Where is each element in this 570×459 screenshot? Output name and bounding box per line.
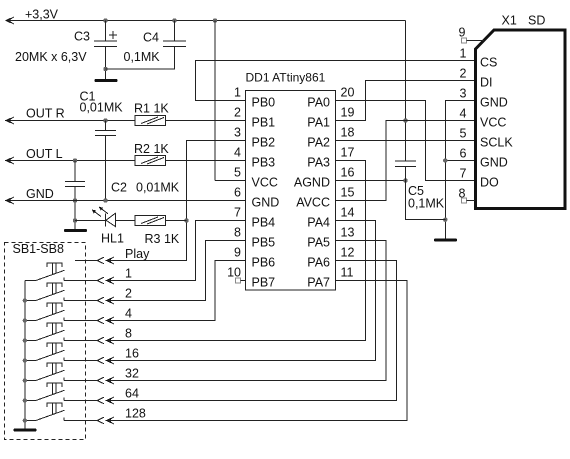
svg-text:PA1: PA1 xyxy=(307,116,330,130)
svg-text:2: 2 xyxy=(460,67,467,81)
button SB6 xyxy=(25,363,97,380)
svg-text:VCC: VCC xyxy=(480,116,506,130)
junction rail/C3 xyxy=(103,18,107,22)
SD pin 9 pad xyxy=(462,38,467,43)
svg-text:OUT L: OUT L xyxy=(26,147,63,161)
svg-text:PA3: PA3 xyxy=(307,156,330,170)
capacitor C1 xyxy=(95,131,116,136)
svg-text:9: 9 xyxy=(234,246,241,260)
common button ground bus xyxy=(24,281,26,429)
junction rail/C4 xyxy=(172,18,176,22)
svg-text:CS: CS xyxy=(480,56,497,70)
wire PA6 pin12 to button row 64 xyxy=(114,261,397,401)
svg-text:13: 13 xyxy=(341,226,355,240)
wire Play row inside box xyxy=(75,260,97,262)
svg-text:PB5: PB5 xyxy=(252,236,276,250)
connector arrows row 2 xyxy=(97,297,114,304)
svg-text:19: 19 xyxy=(341,106,355,120)
svg-text:4: 4 xyxy=(125,307,132,321)
wire C3 bottom lead xyxy=(105,47,107,80)
wire +3,3V drop to VCC/C5 xyxy=(405,21,407,162)
svg-text:PA0: PA0 xyxy=(307,96,330,110)
svg-text:PA5: PA5 xyxy=(307,236,330,250)
svg-text:12: 12 xyxy=(341,246,355,260)
svg-text:4: 4 xyxy=(234,146,241,160)
svg-text:6: 6 xyxy=(460,147,467,161)
junction PB2/R3 row xyxy=(184,218,188,222)
svg-text:GND: GND xyxy=(480,156,508,170)
wire C4 bottom to C3 node xyxy=(106,47,175,70)
wire C2 bottom lead to ground xyxy=(74,187,76,230)
plus sign of C3 xyxy=(109,31,117,39)
svg-text:1: 1 xyxy=(125,267,132,281)
svg-text:PB3: PB3 xyxy=(252,156,276,170)
svg-text:DO: DO xyxy=(480,176,499,190)
svg-text:PB0: PB0 xyxy=(252,96,276,110)
svg-text:DD1 ATtiny861: DD1 ATtiny861 xyxy=(246,71,326,85)
wire +3,3V rail xyxy=(8,20,406,22)
connector arrows Play row xyxy=(97,257,114,264)
svg-text:C2: C2 xyxy=(111,181,127,195)
arrow OUT R xyxy=(5,117,14,124)
svg-text:C4: C4 xyxy=(143,31,159,45)
svg-text:R2 1K: R2 1K xyxy=(134,142,169,156)
wire rail to VCC pin 5 xyxy=(214,21,216,181)
junction C2/GND row xyxy=(73,198,77,202)
junction bus/row 64 xyxy=(23,398,27,402)
svg-text:2: 2 xyxy=(234,106,241,120)
wire PA3 pin17 to button row 8 xyxy=(114,161,366,341)
svg-text:17: 17 xyxy=(341,146,355,160)
junction +3,3V/VCC line xyxy=(403,118,407,122)
svg-text:8: 8 xyxy=(234,226,241,240)
svg-text:GND: GND xyxy=(26,187,54,201)
svg-text:HL1: HL1 xyxy=(101,232,124,246)
wire OUT R row to PB1 pin2 xyxy=(5,120,246,122)
connector arrows row 128 xyxy=(97,417,114,424)
svg-text:0,01MK: 0,01MK xyxy=(136,181,180,195)
svg-text:Play: Play xyxy=(125,247,150,261)
wire SD pin 8 stub xyxy=(467,200,476,202)
svg-text:6: 6 xyxy=(234,186,241,200)
junction bus/row 2 xyxy=(23,298,27,302)
wire PB0 pin1 to SD CS xyxy=(196,61,475,101)
svg-text:SB1-SB8: SB1-SB8 xyxy=(13,242,64,256)
svg-text:PB1: PB1 xyxy=(252,116,276,130)
svg-text:0,1MK: 0,1MK xyxy=(408,197,445,211)
wire PB5 pin8 to button row 2 xyxy=(114,241,246,301)
junction C1/GND row xyxy=(103,198,107,202)
svg-text:3: 3 xyxy=(460,87,467,101)
connector arrows row 4 xyxy=(97,317,114,324)
svg-text:20: 20 xyxy=(341,86,355,100)
junction rail/VCC pin5 xyxy=(213,18,217,22)
button SB7 xyxy=(25,383,97,400)
svg-text:VCC: VCC xyxy=(252,176,278,190)
svg-text:3: 3 xyxy=(234,126,241,140)
wire GND row to pin 6 xyxy=(5,200,246,202)
ground below C2 xyxy=(64,229,87,232)
junction bus/row 16 xyxy=(23,358,27,362)
arrow GND xyxy=(5,197,14,204)
svg-text:PA6: PA6 xyxy=(307,256,330,270)
junction OUT L/C2 xyxy=(73,158,77,162)
svg-text:PA4: PA4 xyxy=(307,216,330,230)
ground below C3 xyxy=(95,79,118,82)
svg-text:18: 18 xyxy=(341,126,355,140)
SD pin 8 pad xyxy=(462,198,467,203)
svg-text:GND: GND xyxy=(252,196,280,210)
wire AGND pin16 to C5 node xyxy=(336,180,406,182)
junction OUT R/C1 xyxy=(103,118,107,122)
wire C1 top lead xyxy=(105,121,107,131)
svg-text:15: 15 xyxy=(341,186,355,200)
svg-text:PB4: PB4 xyxy=(252,216,276,230)
svg-text:SD: SD xyxy=(528,14,545,28)
svg-text:X1: X1 xyxy=(502,14,517,28)
junction bus/row 4 xyxy=(23,318,27,322)
button SB4 xyxy=(25,323,97,340)
capacitor C2 xyxy=(65,182,85,187)
svg-text:1: 1 xyxy=(234,86,241,100)
svg-text:SCLK: SCLK xyxy=(480,136,513,150)
wire PA2 pin18 to SD SCLK xyxy=(336,140,475,142)
button SB5 xyxy=(25,343,97,360)
junction LED row/ground lead xyxy=(73,218,77,222)
junction bus/row 8 xyxy=(23,338,27,342)
arrow +3,3V feed xyxy=(5,17,14,24)
svg-text:R1 1K: R1 1K xyxy=(134,102,169,116)
junction bus/row 128 xyxy=(23,418,27,422)
svg-text:AGND: AGND xyxy=(294,176,330,190)
junction GND/C5 jog xyxy=(443,218,447,222)
svg-text:4: 4 xyxy=(460,107,467,121)
svg-text:64: 64 xyxy=(125,387,139,401)
connector arrows row 32 xyxy=(97,377,114,384)
wire C5 bottom jog to ground net xyxy=(406,167,446,220)
wire C1 bottom lead xyxy=(105,136,107,201)
svg-text:5: 5 xyxy=(234,166,241,180)
svg-text:PA7: PA7 xyxy=(307,276,330,290)
svg-text:R3 1K: R3 1K xyxy=(145,232,180,246)
wire SD GND pin3 down to ground xyxy=(445,101,474,239)
connector arrows row 8 xyxy=(97,337,114,344)
capacitor C3 xyxy=(94,41,117,47)
wire C2 top lead xyxy=(74,161,76,182)
svg-text:20MK x 6,3V: 20MK x 6,3V xyxy=(15,50,87,64)
svg-text:10: 10 xyxy=(227,266,241,280)
connector arrows row 16 xyxy=(97,357,114,364)
svg-text:32: 32 xyxy=(125,367,139,381)
junction GND pin6 xyxy=(443,158,447,162)
svg-text:0,01MK: 0,01MK xyxy=(80,101,124,115)
wire OUT L row to PB3 pin4 xyxy=(5,160,246,162)
svg-text:AVCC: AVCC xyxy=(296,196,330,210)
wire SD GND pin6 stub xyxy=(445,160,474,162)
button SB1 xyxy=(25,263,97,280)
wire PB2 pin3 to R3 node and Play row xyxy=(114,141,246,261)
wire pin 5 stub xyxy=(215,180,246,182)
svg-text:OUT R: OUT R xyxy=(26,107,65,121)
connector arrows row 1 xyxy=(97,277,114,284)
wire C4 top lead xyxy=(174,21,176,42)
svg-text:16: 16 xyxy=(125,347,139,361)
svg-text:8: 8 xyxy=(125,327,132,341)
capacitor C4 xyxy=(163,41,186,47)
svg-text:PB7: PB7 xyxy=(252,276,276,290)
wire R3 to PB2 vertical xyxy=(166,220,187,222)
capacitor C5 xyxy=(395,161,416,167)
wire LED row left lead xyxy=(75,220,106,222)
wire SD pin 9 stub xyxy=(467,40,485,42)
svg-text:5: 5 xyxy=(460,127,467,141)
junction C3/C4 bottom xyxy=(103,67,107,71)
wire PA5 pin13 to button row 32 xyxy=(114,241,386,381)
wire C3 top lead xyxy=(105,21,107,42)
IC pin 10 pad xyxy=(236,278,241,283)
svg-text:DI: DI xyxy=(480,76,493,90)
resistor R1 xyxy=(135,116,166,126)
svg-text:7: 7 xyxy=(234,206,241,220)
wire PA0 pin20 to SD DO xyxy=(336,101,475,181)
svg-text:7: 7 xyxy=(460,167,467,181)
wire PB6 pin9 to button row 4 xyxy=(114,261,246,321)
wire pin 10 stub xyxy=(241,280,246,282)
svg-text:GND: GND xyxy=(480,96,508,110)
wire PA1 pin19 to SD DI xyxy=(336,81,475,121)
ground below SD xyxy=(434,239,457,242)
dashed enclosure SB1-SB8 xyxy=(5,243,86,440)
resistor R2 xyxy=(135,156,166,166)
junction bus/row 32 xyxy=(23,378,27,382)
ground of button bus xyxy=(14,429,37,432)
wire PA7 pin11 to button row 128 xyxy=(114,281,407,421)
resistor R3 xyxy=(135,216,166,226)
svg-text:128: 128 xyxy=(125,407,146,421)
svg-text:PB6: PB6 xyxy=(252,256,276,270)
SD card connector X1 body xyxy=(476,30,566,209)
arrow OUT L xyxy=(5,157,14,164)
svg-text:16: 16 xyxy=(341,166,355,180)
svg-text:14: 14 xyxy=(341,206,355,220)
svg-text:9: 9 xyxy=(459,26,466,40)
wire AVCC pin15 to SD VCC xyxy=(336,121,475,201)
svg-text:C3: C3 xyxy=(74,30,90,44)
svg-text:PB2: PB2 xyxy=(252,136,276,150)
svg-text:2: 2 xyxy=(125,287,132,301)
svg-text:1: 1 xyxy=(460,47,467,61)
junction AGND/C5 bottom xyxy=(403,178,407,182)
wire PB4 pin7 to button row 1 xyxy=(114,221,246,281)
svg-text:+3,3V: +3,3V xyxy=(25,8,59,22)
svg-text:11: 11 xyxy=(341,266,354,280)
svg-text:0,1MK: 0,1MK xyxy=(124,50,161,64)
svg-text:PA2: PA2 xyxy=(307,136,330,150)
IC DD1 ATtiny861 body xyxy=(246,91,336,291)
button SB3 xyxy=(25,303,97,320)
connector arrows row 64 xyxy=(97,397,114,404)
LED HL1 xyxy=(92,207,135,227)
button SB8 xyxy=(25,403,97,420)
wire PA4 pin14 to button row 16 xyxy=(114,221,376,361)
button SB2 xyxy=(25,283,97,300)
